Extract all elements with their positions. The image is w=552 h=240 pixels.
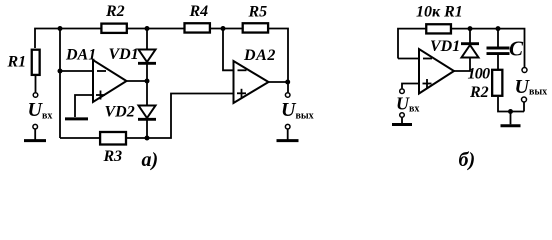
node: VD1 junction b xyxy=(468,26,473,31)
resistor R2 xyxy=(101,24,126,33)
wire: plus input b xyxy=(402,84,419,89)
node: DA2 output junction xyxy=(285,80,290,85)
svg-text:R2: R2 xyxy=(469,84,489,101)
output terminal top (b) xyxy=(522,68,527,73)
svg-text:C: C xyxy=(509,37,524,61)
wire: C branch xyxy=(497,29,499,47)
op-amp DA2 xyxy=(234,61,269,103)
ground (input b) xyxy=(392,118,412,125)
wire: DA1 minus input xyxy=(60,70,93,72)
node: DA1 minus input junction xyxy=(58,69,63,74)
diode VD1 (b) xyxy=(461,44,479,58)
wire: DA1 plus input to ground xyxy=(75,95,93,117)
input terminal top xyxy=(33,93,38,98)
wire: output terminal to ground rail xyxy=(523,102,525,111)
wire: VD1 branch from rail xyxy=(146,29,148,50)
node: rail junction at VD1 branch xyxy=(145,26,150,31)
svg-text:R4: R4 xyxy=(189,3,209,20)
node: ground junction b xyxy=(508,109,513,114)
wire: C to R2 xyxy=(497,55,499,69)
wire: output node to terminal xyxy=(287,82,289,92)
wire: top rail circuit a xyxy=(35,29,288,83)
svg-text:R5: R5 xyxy=(248,4,268,21)
node: bottom rail junction xyxy=(145,136,150,141)
input terminal top (b) xyxy=(400,89,405,94)
ground (output) xyxy=(277,129,299,140)
op-amp DA1 xyxy=(93,60,127,102)
node: rail junction at DA1 input branch xyxy=(58,26,63,31)
svg-text:10к R1: 10к R1 xyxy=(416,4,463,21)
svg-text:R3: R3 xyxy=(103,148,123,165)
output terminal top xyxy=(285,93,290,98)
svg-text:VD2: VD2 xyxy=(105,104,135,121)
resistor R4 xyxy=(185,23,210,32)
svg-text:VD1: VD1 xyxy=(109,46,139,63)
wire: bottom rail xyxy=(60,94,234,139)
svg-text:DA2: DA2 xyxy=(243,47,276,64)
svg-text:R2: R2 xyxy=(105,3,125,20)
resistor R1 (b) xyxy=(426,24,451,33)
node: DA1 output junction xyxy=(145,79,150,84)
svg-text:100: 100 xyxy=(468,66,491,83)
node: rail junction at DA2 input branch xyxy=(221,26,226,31)
wire: DA1 output xyxy=(127,80,148,82)
node: C junction b xyxy=(496,26,501,31)
input terminal bottom (b) xyxy=(400,113,405,118)
wire: DA1 inverting vertical branch xyxy=(59,29,61,139)
wire: minus input b xyxy=(398,58,419,60)
resistor R5 xyxy=(243,23,268,32)
ground (input) xyxy=(24,129,46,140)
wire: VD1 to DA1 output node xyxy=(146,63,148,106)
svg-text:а): а) xyxy=(142,149,159,171)
diode VD2 xyxy=(138,106,156,120)
resistor R1 xyxy=(32,50,40,75)
wire: DA2 output xyxy=(269,81,289,83)
wire: DA2 inverting branch xyxy=(223,29,234,71)
wire: VD2 to bottom rail xyxy=(146,118,148,138)
wire: VD1 to rail b xyxy=(469,29,471,44)
output terminal bottom (b) xyxy=(522,97,527,102)
wire: R1 to input terminal xyxy=(35,76,37,92)
ground (bottom b) xyxy=(501,112,521,126)
svg-text:VD1: VD1 xyxy=(430,38,460,55)
resistor R2 (b) xyxy=(492,70,502,96)
resistor R3 xyxy=(100,132,126,145)
wire: R2 to ground rail xyxy=(498,97,524,112)
output terminal bottom xyxy=(285,124,290,129)
op-amp (b) xyxy=(419,49,454,94)
capacitor C xyxy=(487,48,510,54)
ground (DA1 plus input) xyxy=(65,117,88,120)
wire: feedback rail b xyxy=(398,29,525,68)
svg-text:DA1: DA1 xyxy=(65,47,96,64)
wire: output to VD1 b xyxy=(454,58,470,72)
input terminal bottom xyxy=(33,124,38,129)
svg-text:R1: R1 xyxy=(7,54,27,71)
diode VD1 xyxy=(138,50,156,64)
svg-text:б): б) xyxy=(459,149,476,171)
